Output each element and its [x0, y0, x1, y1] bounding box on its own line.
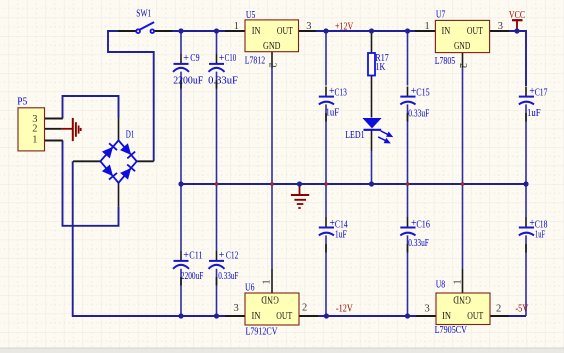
svg-text:OUT: OUT: [276, 311, 292, 322]
svg-text:1uF: 1uF: [527, 108, 541, 119]
junction GND rail / U7-U8 GND column (compiler dot): [461, 183, 464, 186]
svg-text:-5V: -5V: [515, 304, 529, 315]
pin C15 top/bottom: [407, 87, 409, 97]
svg-text:U7: U7: [436, 10, 446, 21]
pin C9 top/bottom: [180, 54, 182, 64]
regulator U8 body: [436, 293, 490, 325]
svg-text:+12V: +12V: [335, 21, 354, 32]
junction rectified rail / C9: [178, 28, 183, 33]
regulator U6 body: [245, 293, 299, 325]
svg-text:+: +: [183, 53, 189, 64]
svg-text:C17: C17: [535, 88, 548, 99]
resistor R17 body: [368, 53, 375, 76]
svg-text:D1: D1: [126, 130, 135, 141]
svg-text:1uF: 1uF: [335, 230, 347, 241]
pin P5 pin2: [45, 128, 62, 130]
capacitor C16 symbol: [400, 228, 415, 236]
wire bottom rail U8.OUT to -5V corner: [509, 315, 526, 317]
junction negative rail / C12: [214, 313, 219, 318]
pin U6 IN (3): [225, 315, 245, 317]
power ground (earth) at P5 pin2: [62, 118, 81, 141]
junction +12V rail / R17: [369, 28, 374, 33]
wire top rail left segment to SW1: [108, 31, 154, 161]
svg-text:VCC: VCC: [509, 10, 525, 21]
capacitor C14 symbol: [319, 228, 334, 236]
svg-text:+: +: [219, 250, 225, 261]
svg-text:IN: IN: [252, 311, 261, 322]
pin U6 GND (1): [271, 269, 273, 293]
wire GND horizontal rail: [181, 183, 526, 185]
pin U7 IN (1): [415, 30, 435, 32]
pin U5 OUT (3): [299, 30, 317, 32]
pin SW1 left: [118, 30, 136, 32]
junction GND rail / C9-C11 column: [178, 181, 183, 186]
svg-text:2: 2: [457, 63, 468, 68]
junction GND rail / C10-C12 column (compiler dot): [215, 183, 218, 186]
wire LED1 bottom to GND rail: [371, 151, 373, 184]
junction GND rail / earth ground: [297, 181, 302, 186]
svg-text:C10: C10: [225, 53, 237, 64]
capacitor C15 symbol: [400, 97, 415, 105]
capacitor C12 symbol: [209, 261, 225, 269]
pin D1 left: [73, 160, 101, 162]
svg-text:1: 1: [234, 21, 239, 32]
svg-text:C12: C12: [226, 251, 239, 262]
svg-text:C16: C16: [416, 219, 430, 230]
wire C13/C14 column: [325, 31, 327, 86]
pin U5 GND (2): [271, 52, 273, 68]
LED LED1 body: [362, 118, 381, 128]
pin C18 top/bottom: [525, 217, 527, 228]
svg-text:L7805: L7805: [435, 56, 456, 67]
junction -12V rail / C16: [405, 313, 410, 318]
svg-text:3: 3: [425, 304, 430, 315]
bridge D1 diode top-right: [120, 143, 131, 155]
power ground (earth) at GND rail: [291, 184, 309, 208]
svg-text:C15: C15: [416, 88, 430, 99]
wire P5 pin3 up and over to bridge top: [63, 96, 119, 119]
svg-text:C11: C11: [189, 251, 202, 262]
svg-text:U8: U8: [436, 280, 446, 291]
wire P5 pin1 down and over to bridge bottom: [63, 141, 119, 226]
svg-text:U6: U6: [245, 283, 255, 294]
junction +12V rail / C15: [405, 28, 410, 33]
svg-text:1: 1: [452, 279, 463, 284]
pin C12 top/bottom: [216, 251, 218, 261]
wire SW1 to U5: [172, 30, 225, 32]
LED1 emission arrows: [378, 131, 392, 143]
pin P5 pin1: [45, 140, 63, 142]
bottom gray strip: [0, 348, 564, 353]
wire C15/C16 column: [407, 31, 409, 86]
svg-text:0.33uF: 0.33uF: [208, 75, 238, 86]
junction +12V rail / C13: [323, 28, 328, 33]
power port VCC: [512, 20, 523, 31]
svg-text:2200uF: 2200uF: [173, 75, 203, 86]
svg-text:1: 1: [425, 21, 430, 32]
svg-text:2: 2: [302, 303, 307, 314]
pin U7 OUT (3): [490, 30, 509, 32]
svg-text:3: 3: [306, 21, 311, 32]
switch SW1: [136, 22, 154, 33]
wire bottom rail U6.OUT to U8.IN: [318, 315, 416, 317]
svg-text:OUT: OUT: [467, 26, 483, 37]
wire +12V rail U5.OUT to U7.IN: [316, 30, 415, 32]
junction GND rail / C17-C18 column: [523, 181, 528, 186]
connector P5 body: [18, 108, 45, 151]
junction negative rail / C11: [178, 313, 183, 318]
svg-text:0.33uF: 0.33uF: [408, 109, 429, 120]
svg-text:GND: GND: [261, 293, 279, 304]
svg-text:SW1: SW1: [136, 9, 151, 20]
wire bridge left corner down to bottom rail: [73, 161, 225, 316]
svg-text:-12V: -12V: [336, 303, 354, 314]
svg-text:IN: IN: [252, 26, 261, 37]
wire U7.OUT to VCC corner and down: [509, 31, 526, 86]
junction GND rail / C13-C14 column (compiler dot): [325, 183, 328, 186]
wire C10/C12 column: [216, 31, 218, 54]
regulator U7 body: [435, 20, 489, 52]
svg-text:2: 2: [267, 63, 278, 68]
pin U8 GND (1): [462, 269, 464, 293]
wire C9/C11 column: [180, 31, 182, 54]
pin C10 top/bottom: [216, 54, 218, 64]
pin U8 OUT (2): [490, 315, 509, 317]
junction GND rail / U5-U6 GND column (compiler dot): [271, 183, 274, 186]
regulator U5 body: [245, 20, 299, 52]
wire C17/C18 column: [525, 104, 527, 217]
pin U8 IN (3): [416, 315, 436, 317]
junction -12V rail / C14: [324, 313, 329, 318]
capacitor C10 symbol: [209, 64, 225, 72]
pin R17 top: [371, 31, 373, 53]
pin C13 top/bottom: [325, 87, 327, 97]
pin U6 OUT (2): [299, 315, 318, 317]
capacitor C13 symbol: [319, 97, 334, 105]
pin C16 top/bottom: [407, 217, 409, 228]
capacitor C17 symbol: [519, 97, 534, 105]
pin R17 bottom / LED1 anode: [371, 76, 373, 118]
svg-text:2: 2: [32, 124, 37, 135]
svg-text:3: 3: [498, 21, 503, 32]
svg-text:GND: GND: [263, 41, 281, 52]
svg-text:+: +: [183, 250, 189, 261]
bridge D1 diode bottom-left: [102, 165, 113, 177]
pin U7 GND (2): [462, 53, 464, 68]
svg-text:OUT: OUT: [467, 311, 483, 322]
bridge D1 diode top-left: [102, 147, 113, 159]
bridge D1 diode bottom-right: [120, 168, 131, 180]
pin SW1 right: [154, 30, 172, 32]
svg-text:L7812: L7812: [245, 56, 266, 67]
svg-text:3: 3: [234, 303, 239, 314]
svg-text:GND: GND: [453, 293, 471, 304]
bridge D1 outline: [100, 140, 136, 182]
capacitor C9 symbol: [173, 64, 189, 72]
svg-text:LED1: LED1: [345, 130, 364, 141]
wire U7.GND to U8.GND column: [462, 68, 464, 269]
svg-text:1uF: 1uF: [326, 108, 340, 119]
svg-text:OUT: OUT: [277, 26, 293, 37]
svg-text:GND: GND: [454, 41, 471, 52]
svg-text:1uF: 1uF: [535, 229, 545, 240]
svg-text:C9: C9: [190, 53, 199, 64]
pin U5 IN (1): [225, 30, 245, 32]
pin D1 bottom: [118, 183, 120, 207]
svg-text:1: 1: [32, 134, 37, 145]
junction GND rail / LED1 cathode: [369, 181, 374, 186]
svg-text:0.33uF: 0.33uF: [218, 271, 239, 282]
svg-text:IN: IN: [442, 311, 451, 322]
svg-text:2: 2: [496, 304, 501, 315]
svg-text:U5: U5: [246, 10, 256, 21]
svg-text:C13: C13: [335, 88, 347, 99]
pin C11 top/bottom: [180, 251, 182, 261]
svg-text:2200uF: 2200uF: [181, 271, 204, 282]
junction rectified rail / C10: [214, 28, 219, 33]
svg-text:1K: 1K: [375, 62, 386, 73]
svg-text:P5: P5: [17, 97, 27, 108]
pin LED1 cathode: [371, 130, 373, 151]
svg-text:L7905CV: L7905CV: [435, 325, 468, 336]
pin D1 right: [137, 160, 154, 162]
pin P5 pin3: [45, 118, 63, 120]
wire U5.GND to U6.GND column: [271, 68, 273, 269]
capacitor C11 symbol: [173, 261, 189, 269]
svg-text:L7912CV: L7912CV: [246, 327, 279, 338]
svg-text:0.33uF: 0.33uF: [408, 238, 429, 249]
junction GND rail / C15-C16 column (compiler dot): [406, 183, 409, 186]
pin C17 top/bottom: [525, 87, 527, 97]
svg-text:IN: IN: [442, 26, 451, 37]
svg-text:1: 1: [262, 279, 273, 284]
junction VCC rail / power port: [514, 28, 519, 33]
pin C14 top/bottom: [325, 217, 327, 228]
pin D1 top: [118, 118, 120, 142]
capacitor C18 symbol: [519, 228, 534, 236]
